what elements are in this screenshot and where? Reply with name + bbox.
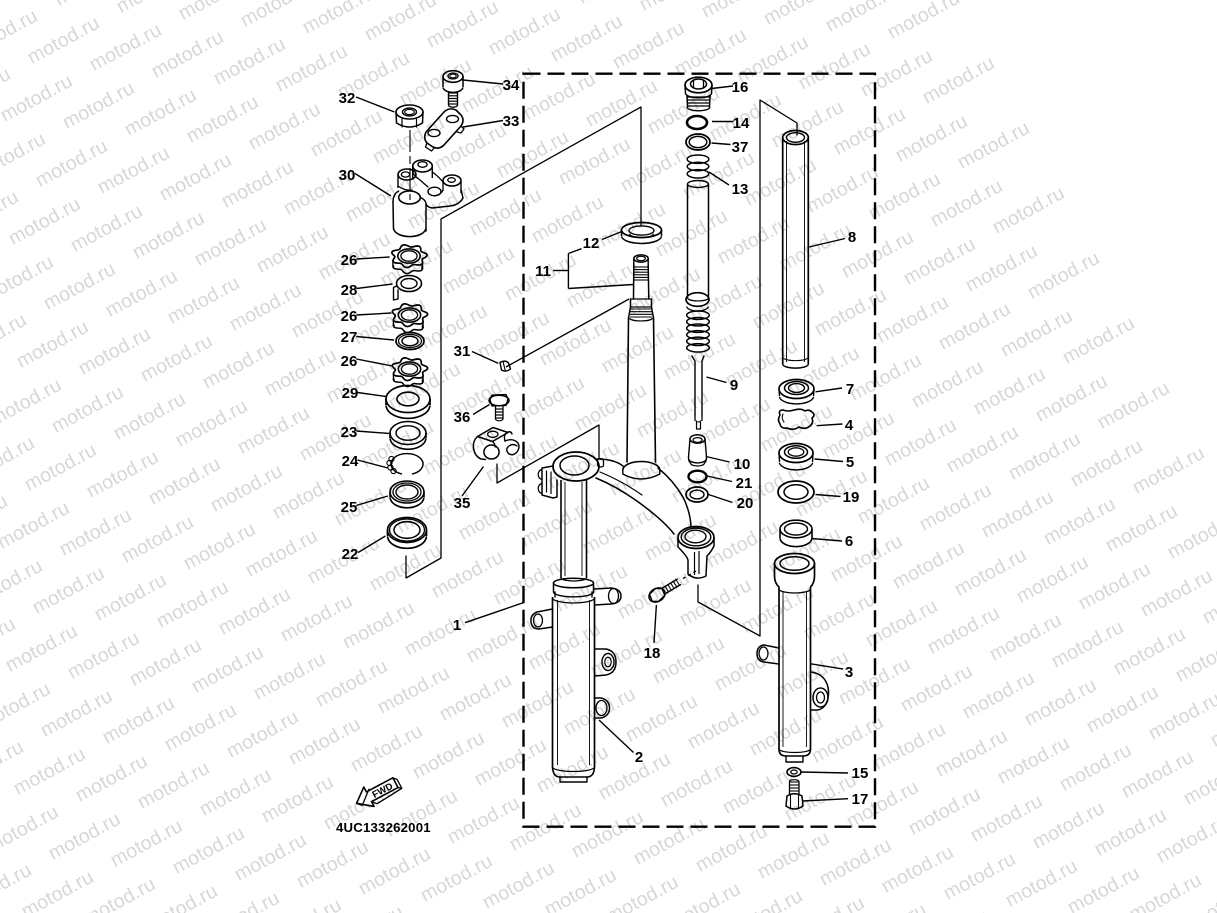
svg-text:4: 4 bbox=[845, 417, 854, 434]
svg-text:32: 32 bbox=[339, 90, 356, 107]
svg-text:21: 21 bbox=[736, 475, 753, 492]
svg-text:26: 26 bbox=[341, 252, 358, 269]
svg-text:1: 1 bbox=[453, 617, 461, 634]
svg-text:16: 16 bbox=[732, 79, 749, 96]
svg-text:18: 18 bbox=[644, 645, 661, 662]
svg-text:2: 2 bbox=[635, 749, 643, 766]
svg-text:5: 5 bbox=[846, 454, 854, 471]
svg-text:26: 26 bbox=[341, 308, 358, 325]
svg-text:13: 13 bbox=[732, 181, 749, 198]
svg-text:29: 29 bbox=[342, 385, 359, 402]
svg-text:14: 14 bbox=[733, 115, 750, 132]
svg-text:22: 22 bbox=[342, 546, 359, 563]
svg-text:7: 7 bbox=[846, 381, 854, 398]
svg-text:4UC133262001: 4UC133262001 bbox=[336, 820, 431, 835]
svg-text:3: 3 bbox=[845, 664, 853, 681]
svg-text:15: 15 bbox=[852, 765, 869, 782]
svg-text:9: 9 bbox=[730, 377, 738, 394]
svg-text:26: 26 bbox=[341, 353, 358, 370]
svg-text:27: 27 bbox=[341, 329, 358, 346]
svg-text:36: 36 bbox=[454, 409, 471, 426]
svg-text:10: 10 bbox=[734, 456, 751, 473]
svg-text:17: 17 bbox=[852, 791, 869, 808]
svg-text:8: 8 bbox=[848, 229, 856, 246]
svg-text:35: 35 bbox=[454, 495, 471, 512]
svg-text:25: 25 bbox=[341, 499, 358, 516]
svg-text:34: 34 bbox=[503, 77, 520, 94]
svg-text:33: 33 bbox=[503, 113, 520, 130]
svg-text:37: 37 bbox=[732, 139, 749, 156]
svg-text:23: 23 bbox=[341, 424, 358, 441]
svg-text:30: 30 bbox=[339, 167, 356, 184]
svg-text:6: 6 bbox=[845, 533, 853, 550]
svg-text:20: 20 bbox=[737, 495, 754, 512]
svg-text:28: 28 bbox=[341, 282, 358, 299]
svg-text:24: 24 bbox=[342, 453, 359, 470]
svg-text:19: 19 bbox=[843, 489, 860, 506]
svg-text:11: 11 bbox=[535, 263, 551, 280]
svg-text:12: 12 bbox=[583, 235, 600, 252]
svg-text:31: 31 bbox=[454, 343, 471, 360]
